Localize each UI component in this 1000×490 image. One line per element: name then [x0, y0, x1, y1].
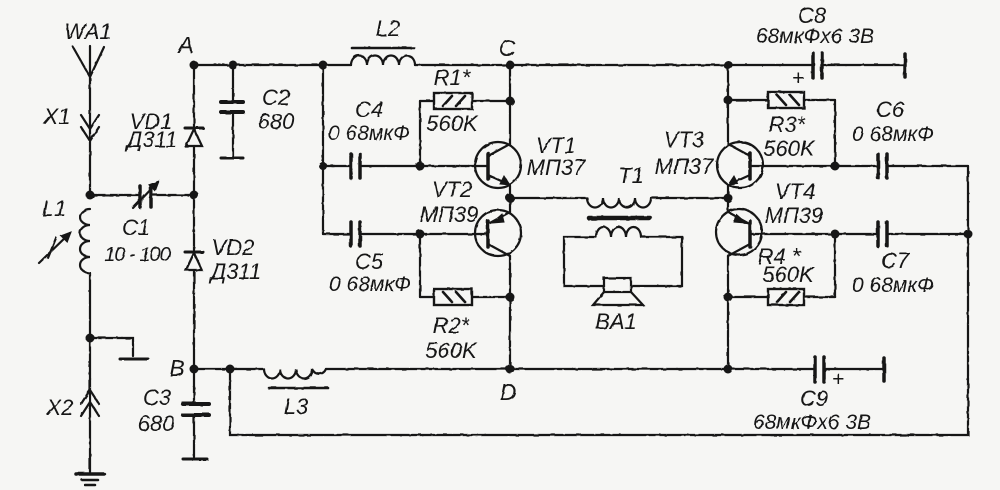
svg-text:0 68мкФ: 0 68мкФ [852, 274, 934, 297]
wire D rail [194, 368, 264, 370]
svg-text:T1: T1 [618, 163, 644, 188]
wire VT4 base row [750, 233, 876, 235]
transistor VT3 [655, 127, 763, 188]
wire T1 primary row [510, 197, 587, 199]
transistor VT1 [475, 133, 586, 188]
node junction B spur [226, 365, 235, 374]
wire VT1 collector to C [509, 65, 511, 144]
node junction R2/C5/base [416, 230, 425, 239]
svg-text:560K: 560K [762, 262, 815, 287]
svg-text:C5: C5 [355, 249, 384, 274]
svg-text:VD2: VD2 [212, 235, 255, 260]
inductor L2 [351, 16, 415, 65]
loudspeaker BA1 [593, 278, 643, 334]
svg-text:WA1: WA1 [64, 19, 111, 44]
svg-text:+: + [792, 67, 804, 90]
node junction C2/top rail [229, 61, 238, 70]
svg-text:VT4: VT4 [775, 179, 815, 204]
node B [190, 365, 199, 374]
resistor R1 [420, 65, 510, 166]
svg-text:C3: C3 [143, 385, 172, 410]
svg-text:560K: 560K [426, 111, 479, 136]
node junction R2/collector [506, 293, 515, 302]
svg-text:C7: C7 [881, 248, 910, 273]
svg-text:0 68мкФ: 0 68мкФ [852, 123, 934, 146]
svg-text:BA1: BA1 [595, 309, 637, 334]
wire bottom return loop [230, 166, 968, 435]
node junction C1/VD1/VD2 [190, 191, 199, 200]
svg-text:C2: C2 [262, 85, 290, 110]
node junction top rail x=728 [724, 61, 733, 70]
wire VT4 collector to D [727, 256, 729, 369]
svg-text:X1: X1 [43, 104, 71, 129]
svg-text:68мкФх6 3В: 68мкФх6 3В [753, 411, 871, 434]
node junction L2 left [319, 61, 328, 70]
svg-text:680: 680 [138, 411, 175, 436]
svg-text:560K: 560K [425, 338, 478, 363]
resistor R3 [728, 92, 835, 166]
capacitor C5 [323, 222, 411, 296]
wire VT3 emitter [727, 185, 729, 198]
wire VT3 base row [750, 165, 876, 167]
node junction D rail x=728 [724, 365, 733, 374]
svg-text:R2*: R2* [433, 313, 471, 338]
svg-text:R3*: R3* [769, 112, 807, 137]
svg-text:VT3: VT3 [664, 127, 705, 152]
svg-text:МП39: МП39 [765, 203, 824, 228]
wire VT2 collector to D [509, 256, 511, 369]
node junction L1/C1/X1 [86, 191, 95, 200]
wire X2 column [89, 338, 91, 472]
node junction R4/base [831, 230, 840, 239]
capacitor C6 [852, 97, 968, 178]
node junction C4 tap [319, 162, 327, 170]
resistor R2 [420, 234, 510, 363]
svg-text:C6: C6 [876, 97, 905, 122]
capacitor C8 (electrolytic) [756, 3, 905, 90]
diode VD2 [185, 235, 261, 284]
node A [190, 61, 199, 70]
svg-text:L3: L3 [284, 394, 309, 419]
wire VT1 emitter to node [509, 185, 511, 198]
wire VT2 emitter [509, 198, 511, 212]
svg-text:C9: C9 [800, 386, 828, 411]
svg-text:L2: L2 [376, 16, 400, 41]
svg-text:VT2: VT2 [432, 177, 472, 202]
svg-text:C4: C4 [355, 97, 383, 122]
capacitor C4 [323, 97, 410, 178]
ground (earth under X2) [76, 474, 104, 485]
ground (chassis near L1) [90, 338, 148, 359]
wire VT3 collector to C [727, 65, 729, 144]
svg-text:X2: X2 [46, 395, 74, 420]
diode VD1 [124, 109, 203, 152]
svg-text:+: + [832, 368, 844, 391]
wire L1 bottom [89, 273, 91, 338]
svg-text:B: B [169, 355, 184, 381]
svg-text:МП37: МП37 [655, 154, 715, 179]
capacitor C1 (variable) [90, 182, 194, 266]
svg-text:R1*: R1* [434, 65, 472, 90]
svg-text:L1: L1 [42, 196, 66, 221]
svg-text:C1: C1 [122, 215, 150, 240]
node D [506, 365, 515, 374]
wire top rail A to C8 [194, 64, 351, 66]
wire C4 to VT1 base [362, 165, 487, 167]
svg-text:МП37: МП37 [527, 155, 587, 180]
resistor R4 [728, 234, 835, 305]
wire antenna column [89, 77, 91, 195]
svg-text:Д311: Д311 [124, 127, 178, 152]
capacitor C2 [221, 65, 295, 158]
node junction R3/base [831, 162, 840, 171]
svg-text:C: C [499, 35, 516, 61]
transistor VT2 [420, 177, 521, 256]
node C [506, 61, 515, 70]
transformer T1 primary [587, 163, 651, 218]
svg-text:68мкФх6 3В: 68мкФх6 3В [756, 25, 874, 48]
wire input column x=323 [322, 65, 324, 234]
connector X2 [46, 390, 99, 420]
node emitter junction VT1/VT2 [506, 194, 515, 203]
svg-text:10 - 100: 10 - 100 [104, 244, 170, 266]
inductor L3 [264, 369, 328, 419]
node junction R3/collector [724, 96, 733, 105]
capacitor C7 [852, 222, 968, 297]
node junction right rail/C7 [964, 230, 973, 239]
coil L1 [39, 196, 90, 273]
svg-text:0 68мкФ: 0 68мкФ [328, 122, 410, 145]
wire C5 to VT2 base [362, 233, 487, 235]
node emitter junction VT3/VT4 [724, 194, 733, 203]
svg-text:560K: 560K [763, 136, 816, 161]
connector X1 [43, 104, 99, 141]
wire A-B vertical with diodes [193, 65, 195, 126]
svg-text:Д311: Д311 [208, 259, 262, 284]
svg-text:МП39: МП39 [420, 202, 479, 227]
wire VT4 emitter [727, 198, 729, 212]
node junction R1/C4/base [416, 162, 425, 171]
node junction R1/collector [506, 97, 515, 106]
antenna WA1 [64, 19, 111, 77]
svg-text:D: D [500, 379, 517, 405]
transistor VT4 [716, 179, 823, 256]
node junction L1-bottom/X2 [86, 334, 95, 343]
svg-text:680: 680 [258, 109, 295, 134]
transformer T1 secondary [564, 227, 682, 286]
svg-text:0 68мкФ: 0 68мкФ [329, 273, 411, 296]
svg-text:A: A [176, 32, 193, 58]
capacitor C3 [138, 369, 209, 459]
capacitor C9 (electrolytic) [753, 357, 884, 434]
node junction R4/collector [724, 293, 733, 302]
